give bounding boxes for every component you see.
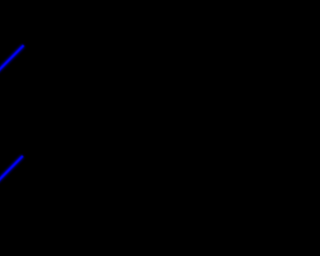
wire: [0, 156, 23, 182]
wire: [0, 45, 24, 72]
